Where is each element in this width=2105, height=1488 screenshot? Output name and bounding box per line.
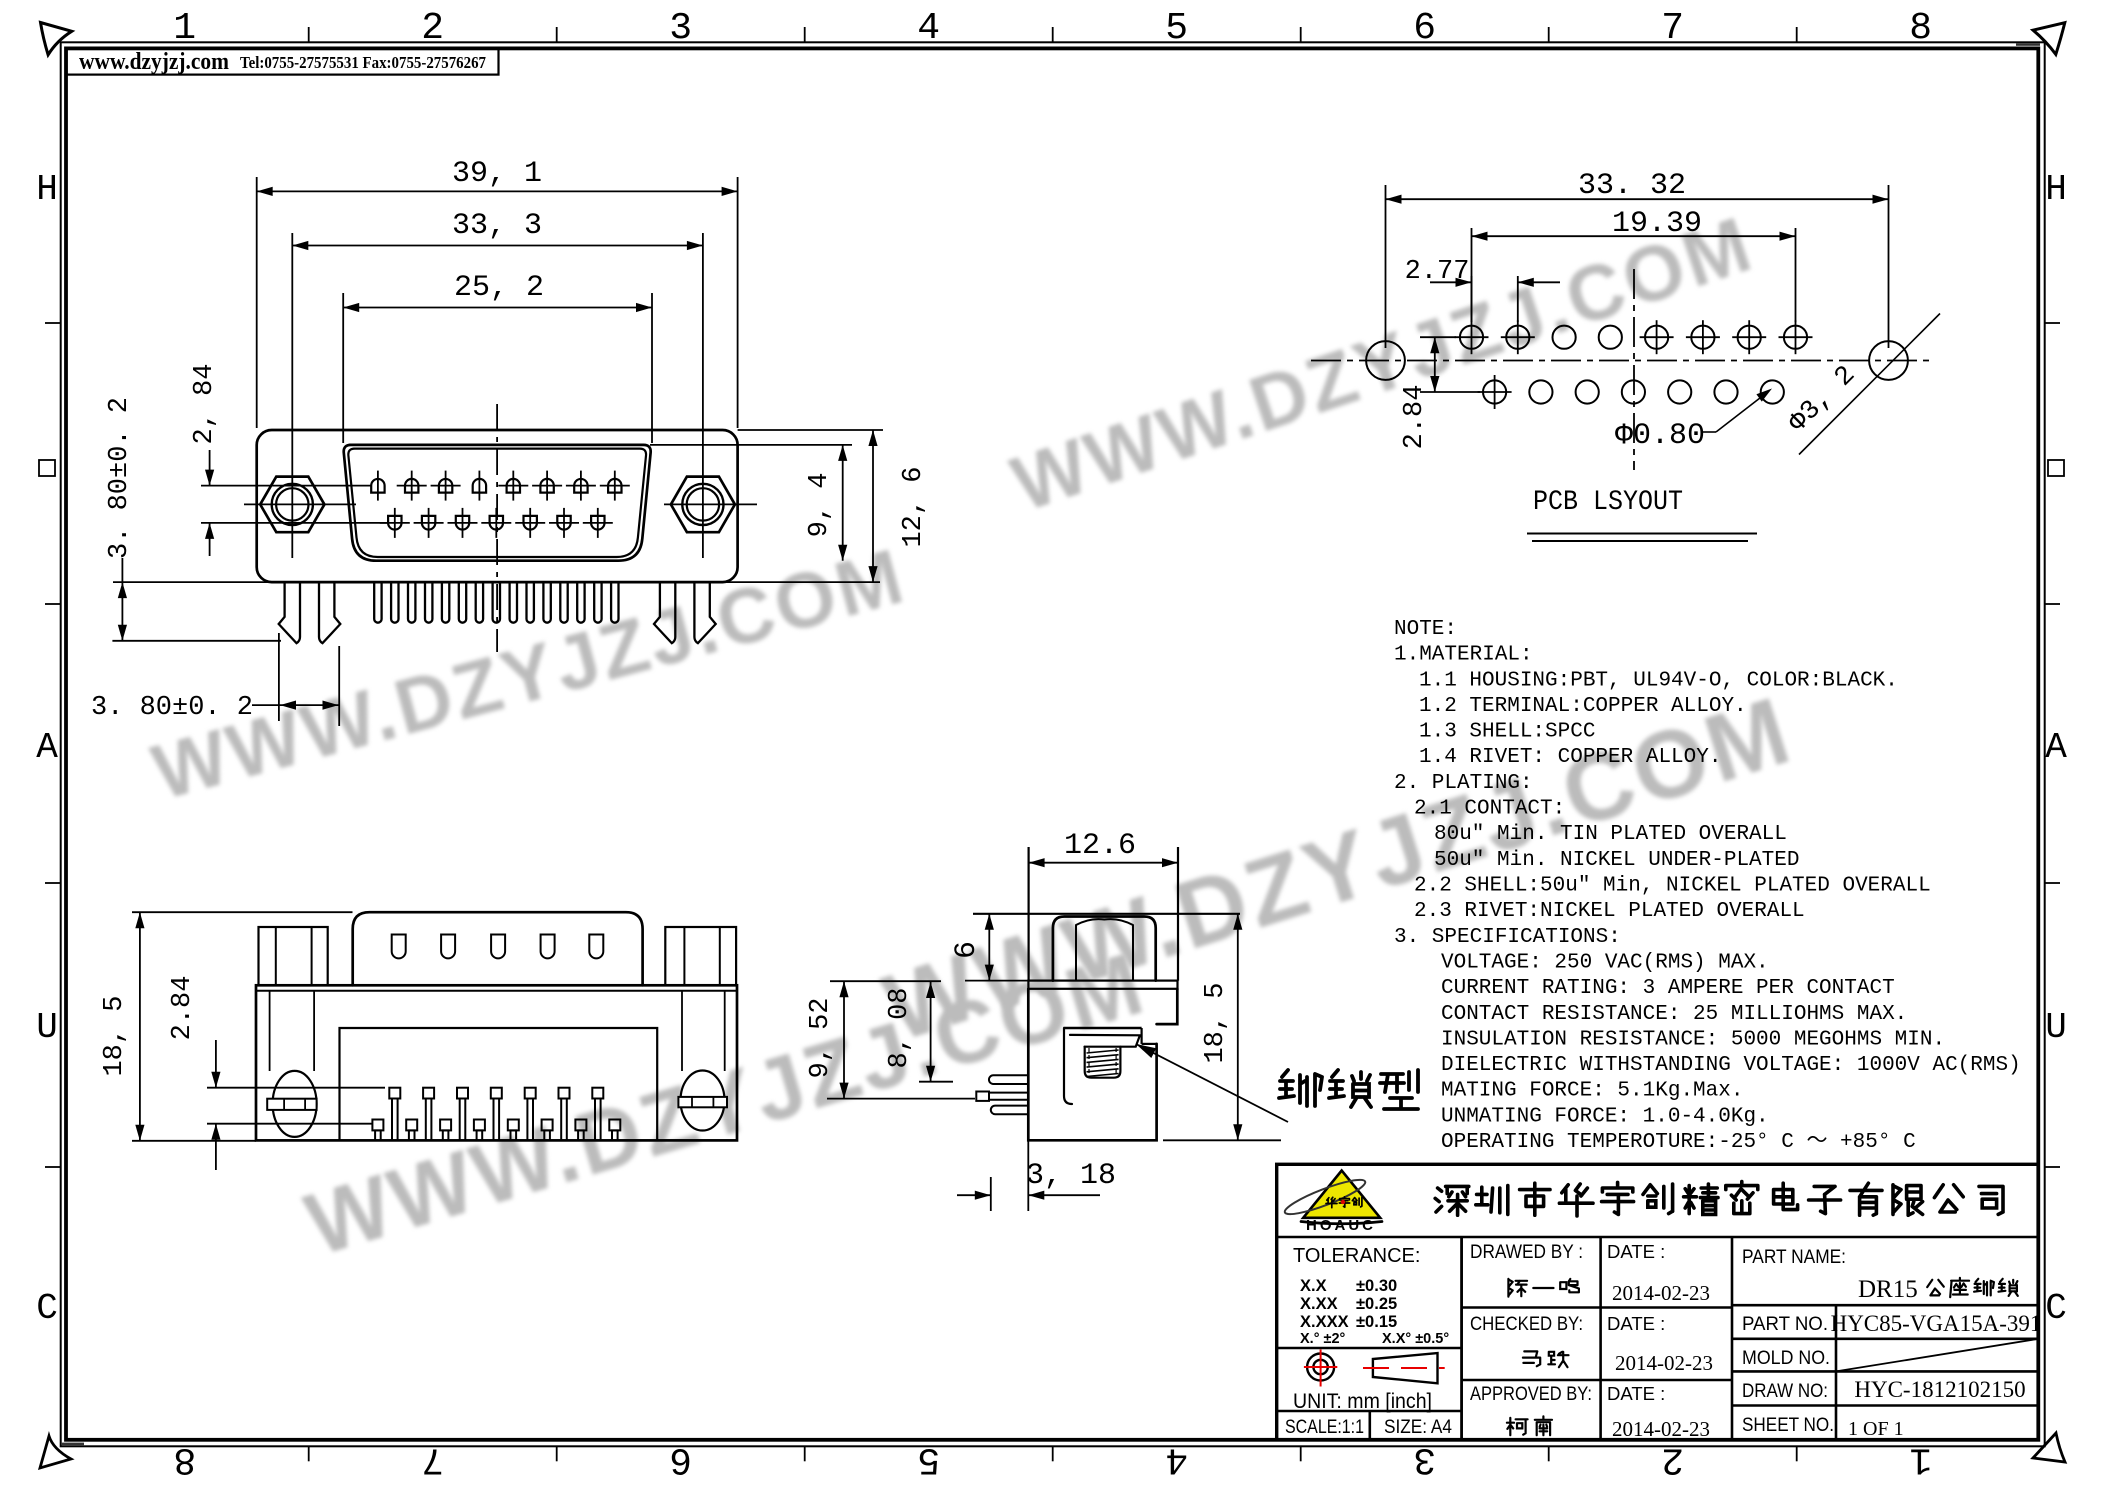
top view body [256,985,737,1140]
svg-text:33. 32: 33. 32 [1578,169,1686,203]
front view top row pins (8) [371,479,384,493]
svg-text:50u″ Min. NICKEL UNDER-PLATED: 50u″ Min. NICKEL UNDER-PLATED [1434,849,1799,872]
svg-text:2: 2 [1661,1438,1684,1481]
svg-text:2.3 RIVET:NICKEL PLATED OVERAL: 2.3 RIVET:NICKEL PLATED OVERALL [1414,900,1805,923]
svg-text:H: H [2045,169,2067,210]
ruler ticks right [2045,322,2060,324]
svg-text:DATE :: DATE : [1607,1313,1665,1334]
pcb mounting hole right [1869,341,1908,380]
svg-text:8, 08: 8, 08 [885,987,915,1068]
front view nut right outer circle [682,484,723,525]
top view dimension 18,5 [132,911,353,913]
svg-text:±0.30: ±0.30 [1356,1277,1397,1295]
corner arrow bottom-right [2033,1433,2065,1462]
svg-text:1: 1 [1909,1438,1932,1481]
top view upper pins (7) [389,1088,400,1099]
dimension 39,1 [256,177,258,428]
svg-text:3, 18: 3, 18 [1026,1159,1116,1193]
svg-text:SHEET NO.: SHEET NO. [1742,1415,1834,1436]
ruler letter right square [2048,460,2064,476]
pcb title underline 2 [1532,540,1748,542]
section pin bar 1 [989,1075,1028,1084]
svg-text:3. SPECIFICATIONS:: 3. SPECIFICATIONS: [1394,926,1621,949]
svg-text:A: A [2045,727,2067,768]
pcb vertical centerline [1633,269,1635,470]
title block projection row line [1277,1410,1462,1413]
dimension 3.80 +-0.2 vertical [112,640,281,642]
logo swoosh ellipse [1282,1174,1368,1220]
front view bottom row pins (7) [388,516,401,530]
svg-text:2.2 SHELL:50u″ Min, NICKEL PLA: 2.2 SHELL:50u″ Min, NICKEL PLATED OVERAL… [1414,875,1931,898]
svg-text:APPROVED BY:: APPROVED BY: [1470,1384,1592,1405]
svg-text:CHECKED BY:: CHECKED BY: [1470,1314,1583,1335]
pcb horizontal centerline [1311,360,1930,362]
front view bottom baseline [113,581,880,583]
svg-text:3. 80±0. 2: 3. 80±0. 2 [105,397,135,559]
title block mold diagonal [1836,1339,2038,1372]
svg-text:8: 8 [173,1438,196,1481]
svg-text:SCALE:1:1: SCALE:1:1 [1285,1417,1364,1438]
section pin bar 2 with cap [989,1093,1028,1100]
svg-text:18, 5: 18, 5 [1201,982,1231,1063]
top view screw barrel lines left [269,991,271,1071]
title block date col divider [1731,1237,1734,1440]
title block row line drawed/checked [1462,1306,1732,1309]
svg-text:4: 4 [917,7,940,50]
section lock cavity top [1064,1027,1142,1029]
svg-text:INSULATION RESISTANCE: 5000 ME: INSULATION RESISTANCE: 5000 MEGOHMS MIN. [1441,1028,1945,1051]
svg-text:C: C [36,1288,58,1329]
svg-text:2, 84: 2, 84 [190,363,220,444]
section pin bar 3 [991,1106,1029,1115]
svg-text:UNIT: mm [inch]: UNIT: mm [inch] [1293,1390,1432,1413]
svg-text:19.39: 19.39 [1612,207,1702,241]
svg-text:1 OF 1: 1 OF 1 [1848,1418,1904,1440]
svg-text:3: 3 [669,7,692,50]
svg-text:39, 1: 39, 1 [452,157,542,191]
svg-text:2014-02-23: 2014-02-23 [1615,1351,1713,1375]
pcb top row holes (8) [1460,326,1483,349]
dimension 9,4 right [650,444,852,446]
front view hex nut left [260,477,324,533]
section window notch [1140,1028,1142,1044]
svg-text:33, 3: 33, 3 [452,209,542,243]
ruler ticks bottom [308,1446,310,1461]
svg-text:12, 6: 12, 6 [899,466,929,547]
section block right edge + ext [1177,847,1179,981]
dimension 3.80 +-0.2 horizontal [278,633,280,721]
rivet lock leader arrow [1136,1044,1288,1122]
section lock cavity left L [1064,1028,1072,1104]
svg-text:HYC-1812102150: HYC-1812102150 [1854,1377,2025,1402]
svg-text:±0.15: ±0.15 [1356,1313,1397,1331]
svg-text:2014-02-23: 2014-02-23 [1612,1417,1710,1441]
svg-text:CONTACT RESISTANCE: 25 MILLIOH: CONTACT RESISTANCE: 25 MILLIOHMS MAX. [1441,1003,1907,1026]
svg-text:A: A [36,727,58,768]
top view screw barrel lines right [681,991,683,1071]
section latch bar [1070,1035,1140,1047]
section dimension 9,52 [830,980,941,982]
dimension 25,2 [342,293,344,443]
front view nut left outer circle [272,484,313,525]
section hex nut [1053,917,1156,981]
logo small cjk [1326,1197,1337,1207]
svg-text:MATING FORCE: 5.1Kg.Max.: MATING FORCE: 5.1Kg.Max. [1441,1080,1743,1103]
title block drawed col divider [1460,1237,1463,1440]
svg-text:1: 1 [173,7,196,50]
svg-text:NOTE:: NOTE: [1394,618,1457,641]
svg-text:2.1 CONTACT:: 2.1 CONTACT: [1414,798,1565,821]
svg-text:3. 80±0. 2: 3. 80±0. 2 [91,693,253,723]
front view boardlock 2 [319,582,340,643]
logo base swoosh [1301,1222,1382,1224]
pcb dimension 33.32 [1385,185,1387,348]
top view dimension 2.84 [207,1087,385,1089]
front view boardlock 1 [279,582,300,643]
svg-text:6: 6 [669,1438,692,1481]
top view flange lip line [256,990,737,992]
svg-text:2.77: 2.77 [1405,257,1470,287]
svg-text:2. PLATING:: 2. PLATING: [1394,772,1533,795]
svg-text:X.° ±2°: X.° ±2° [1300,1331,1346,1347]
svg-text:6: 6 [950,941,984,959]
svg-text:1.1 HOUSING:PBT, UL94V-O, COLO: 1.1 HOUSING:PBT, UL94V-O, COLOR:BLACK. [1419,669,1898,692]
section dimension 18,5 right [1163,1139,1281,1141]
svg-text:5: 5 [917,1438,940,1481]
top view hex standoff right [665,927,736,985]
svg-text:TOLERANCE:: TOLERANCE: [1293,1245,1420,1267]
top view hex standoff left [259,927,328,985]
logo triangle [1303,1171,1380,1218]
front view nut right inner circle [687,488,719,520]
svg-text:X.XX: X.XX [1300,1295,1338,1313]
svg-text:www.dzyjzj.com: www.dzyjzj.com [79,49,229,75]
projection symbol circle [1307,1354,1334,1381]
svg-text:9, 4: 9, 4 [805,473,835,538]
svg-text:6: 6 [1413,7,1436,50]
section dimension 12.6 [1029,862,1178,864]
front view nut centerline horizontal right [664,503,757,505]
front view D-shell inner [348,449,646,557]
title block outer box [1277,1164,2039,1440]
section nut facets [1075,925,1077,981]
title block label-value divider [1835,1305,1838,1440]
title block left col edge [1460,1237,1463,1440]
section dimension 3,18 [990,1177,992,1211]
svg-text:25, 2: 25, 2 [454,271,544,305]
svg-text:MOLD NO.: MOLD NO. [1742,1348,1830,1369]
svg-text:DRAWED BY :: DRAWED BY : [1470,1242,1583,1263]
pcb dimension 19.39 [1471,228,1473,322]
header contact box [67,48,499,74]
svg-text:HYC85-VGA15A-391: HYC85-VGA15A-391 [1831,1311,2042,1336]
svg-text:1.MATERIAL:: 1.MATERIAL: [1394,644,1533,667]
top view mating shell [353,912,643,985]
svg-text:PART NAME:: PART NAME: [1742,1247,1846,1268]
svg-text:2014-02-23: 2014-02-23 [1612,1281,1710,1305]
svg-text:2.84: 2.84 [1400,385,1430,450]
title block mold row line [1732,1370,2038,1373]
front view D-shell outer [344,445,651,561]
svg-text:SIZE: A4: SIZE: A4 [1384,1417,1452,1438]
svg-text:U: U [36,1007,58,1048]
section block left edge + ext [1027,847,1029,981]
label rivet-lock type CJK [1279,1070,1322,1106]
svg-text:HOAUC: HOAUC [1306,1217,1376,1234]
svg-text:DATE :: DATE : [1607,1383,1665,1404]
section flange plate [1028,981,1177,989]
svg-text:1.4 RIVET: COPPER ALLOY.: 1.4 RIVET: COPPER ALLOY. [1419,746,1721,769]
pcb dimension 2.84 [1420,336,1456,338]
svg-text:80u″ Min. TIN PLATED OVERALL: 80u″ Min. TIN PLATED OVERALL [1434,823,1787,846]
title block company row line [1277,1236,2039,1239]
svg-text:18, 5: 18, 5 [100,995,130,1076]
dimension 12,6 right [738,429,883,431]
corner arrow top-right [2033,23,2065,55]
corner arrow top-left [41,23,72,55]
title block draw row line [1732,1404,2038,1407]
title block scale-size divider [1369,1411,1372,1440]
front view boardlock 3 [654,582,675,643]
title block tolerance row line [1277,1347,1462,1350]
checked by name CJK [1523,1351,1540,1366]
print smudge bottom-left [61,1443,84,1446]
front view flange [257,430,738,582]
section threaded rivet [1085,1047,1121,1078]
front view nut centerline horizontal left [244,503,356,505]
svg-text:U: U [2045,1007,2067,1048]
svg-text:9, 52: 9, 52 [806,997,836,1078]
svg-text:OPERATING TEMPEROTURE:-25° C ～: OPERATING TEMPEROTURE:-25° C ～ +85° C [1441,1131,1916,1154]
title block row line checked/approved [1462,1379,1732,1382]
top view lower pins (8) [372,1120,383,1131]
print smudge top-right [2016,43,2040,45]
svg-text:4: 4 [1165,1438,1188,1481]
front view nut left inner circle [276,488,308,520]
section dimension 8,08 [919,1081,953,1083]
pcb bottom row holes (7) [1483,380,1506,403]
title block part no row line [1732,1338,2038,1341]
svg-text:H: H [36,169,58,210]
svg-text:1.3 SHELL:SPCC: 1.3 SHELL:SPCC [1419,721,1595,744]
projection symbol cone [1373,1353,1438,1383]
svg-text:PCB LSYOUT: PCB LSYOUT [1533,487,1683,518]
section dimension 6 [988,914,990,981]
svg-text:±0.25: ±0.25 [1356,1295,1397,1313]
svg-text:3: 3 [1413,1438,1436,1481]
drawed by name CJK [1508,1279,1527,1297]
front view nut right vertical centerline + 33,3 extension [702,233,704,558]
pcb title underline 1 [1527,533,1757,535]
front view nut left vertical centerline + 33,3 extension [291,233,293,558]
svg-text:PART NO.: PART NO. [1742,1314,1828,1335]
front view solder tails (15) [374,582,381,623]
front view hex nut right [671,477,735,533]
svg-text:C: C [2045,1288,2067,1329]
svg-text:X.X: X.X [1300,1277,1327,1295]
top view shell slots (5) [392,935,406,959]
corner arrow bottom-left [40,1436,71,1468]
svg-text:Tel:0755-27575531 Fax:0755-27: Tel:0755-27575531 Fax:0755-27576267 [240,53,486,72]
front view boardlock 4 [694,582,715,643]
svg-text:2: 2 [421,7,444,50]
svg-text:DRAW NO:: DRAW NO: [1742,1381,1828,1402]
section body outline [1028,989,1156,1141]
title block part name row line [1732,1304,2038,1307]
svg-text:UNMATING FORCE: 1.0-4.0Kg.: UNMATING FORCE: 1.0-4.0Kg. [1441,1105,1769,1128]
pcb dimension 2.77 [1471,276,1473,322]
svg-text:X.XXX: X.XXX [1300,1313,1349,1331]
svg-text:7: 7 [421,1438,444,1481]
ruler letter left square [39,460,55,476]
top view insulator box [340,1028,658,1140]
top view screw right [681,1071,725,1131]
svg-text:DIELECTRIC WITHSTANDING VOLTAG: DIELECTRIC WITHSTANDING VOLTAGE: 1000V A… [1441,1054,2021,1077]
ruler ticks top [308,27,310,42]
dimension 2,84 left [201,485,371,487]
svg-text:Φ0.80: Φ0.80 [1615,419,1705,453]
ruler ticks left [45,322,61,324]
top view screw left [273,1071,317,1137]
svg-text:7: 7 [1661,7,1684,50]
svg-text:8: 8 [1909,7,1932,50]
company name CJK [1435,1186,1469,1215]
dimension 33,3 [292,245,703,247]
svg-text:DR15: DR15 [1858,1276,1918,1303]
svg-text:12.6: 12.6 [1064,829,1136,863]
svg-text:5: 5 [1165,7,1188,50]
pcb hole right diagonal leader [1799,314,1940,455]
pcb mounting hole left [1366,341,1405,380]
logo red dot [1341,1200,1345,1204]
svg-text:2.84: 2.84 [168,976,198,1041]
svg-text:VOLTAGE: 250 VAC(RMS) MAX.: VOLTAGE: 250 VAC(RMS) MAX. [1441,952,1769,975]
svg-text:1.2 TERMINAL:COPPER ALLOY.: 1.2 TERMINAL:COPPER ALLOY. [1419,695,1747,718]
svg-text:X.X° ±0.5°: X.X° ±0.5° [1382,1331,1449,1347]
front view vertical centerline dashed [496,404,498,652]
approved by name CJK [1507,1418,1528,1435]
section top face line [973,913,1240,915]
svg-text:DATE :: DATE : [1607,1241,1665,1262]
svg-text:CURRENT RATING: 3 AMPERE PER C: CURRENT RATING: 3 AMPERE PER CONTACT [1441,977,1895,1000]
